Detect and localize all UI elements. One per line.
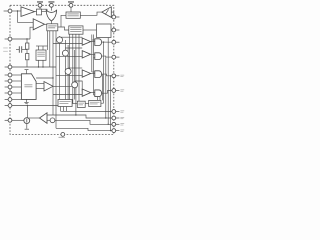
wire block top stub bbox=[26, 70, 28, 74]
wire bus line 4 bbox=[78, 34, 80, 101]
box text line bbox=[37, 51, 45, 54]
wire OR gate output bbox=[50, 21, 52, 24]
wire right vertical 2 bbox=[105, 57, 107, 118]
pin label top bbox=[68, 1, 74, 2]
pin lead left 2 bbox=[5, 38, 9, 40]
pin bottom bbox=[61, 133, 65, 137]
wire capacitor left bbox=[16, 49, 19, 51]
wire driver B to gate B bbox=[91, 53, 95, 55]
wire driver D input 1 bbox=[75, 81, 83, 91]
pin left 6 bbox=[8, 85, 12, 89]
OR gate pointing down bbox=[46, 10, 56, 21]
wire pin to divider bbox=[12, 38, 30, 40]
wire driver B input 2 bbox=[56, 55, 82, 57]
wire osc amp input bbox=[27, 117, 39, 119]
pin top 2 bbox=[50, 3, 54, 7]
pin lead right 5 bbox=[116, 75, 120, 77]
wire pin to current source bbox=[12, 119, 24, 121]
junction bbox=[42, 66, 43, 67]
junction bbox=[75, 114, 76, 115]
wire driver A input 2 bbox=[53, 43, 82, 45]
wire pin input 3 bbox=[12, 86, 21, 88]
pin lead left 4 bbox=[5, 74, 9, 76]
wire pin to amp1 input bbox=[12, 10, 21, 12]
wire box1 left branch bbox=[61, 15, 66, 27]
oscillator amp triangle pointing left A4 bbox=[40, 113, 48, 124]
box text line bbox=[90, 101, 100, 104]
box U9 bottom-right of row bbox=[89, 100, 101, 106]
pin label bbox=[120, 74, 124, 77]
wire driver C input 2 bbox=[56, 74, 82, 76]
block text line bbox=[24, 83, 32, 86]
wire block output 1 bbox=[36, 77, 53, 79]
box text line bbox=[37, 53, 45, 56]
wire box1 to regulator bbox=[80, 12, 102, 15]
pin right 6 bbox=[112, 89, 116, 93]
wire block top tick bbox=[25, 69, 29, 71]
wire gate D to pin bbox=[102, 91, 112, 94]
wire pin CT across bbox=[12, 66, 56, 68]
junction bbox=[103, 41, 104, 42]
pin label bbox=[120, 130, 123, 133]
wire osc box bottom stub 2 bbox=[42, 60, 44, 67]
pin left 10 bbox=[8, 118, 12, 122]
wire box C up stub 3 bbox=[102, 74, 104, 100]
box U3 undervoltage lockout bbox=[69, 26, 83, 34]
pin label bbox=[120, 122, 124, 125]
box text line bbox=[70, 26, 81, 29]
junction bbox=[110, 130, 111, 131]
pin lead right 1 bbox=[116, 16, 120, 18]
wire vertical bbox=[49, 31, 51, 67]
wire tap gate A bbox=[92, 39, 95, 41]
wire to osc bead bbox=[47, 119, 50, 121]
current source I1 bbox=[24, 118, 30, 124]
pin label bbox=[120, 90, 123, 93]
pin left 3 bbox=[8, 65, 12, 69]
pin label top bbox=[48, 1, 54, 2]
wire amp2 output bbox=[45, 23, 48, 25]
wire driver A to gate A bbox=[91, 41, 95, 43]
wire divider top bbox=[26, 39, 28, 43]
pin label bbox=[120, 116, 124, 119]
AND gate D bbox=[95, 90, 102, 97]
wire down to osc box bbox=[47, 24, 49, 50]
junction bbox=[74, 86, 75, 87]
box U5 oscillator control bbox=[36, 50, 46, 60]
ground tick bbox=[25, 128, 29, 130]
pin right 4 bbox=[112, 55, 116, 59]
wire amp3 input 1 bbox=[36, 83, 44, 85]
wire pin input 2 bbox=[12, 80, 21, 82]
hysteresis box after A1 bbox=[37, 9, 42, 15]
wire osc box top rail bbox=[36, 45, 48, 47]
wire gate bus 1 bbox=[91, 35, 93, 73]
driver triangle A bbox=[82, 38, 90, 45]
wire box A to box B bbox=[72, 103, 77, 105]
box text line bbox=[67, 13, 78, 16]
ground bar 1 bbox=[24, 101, 28, 103]
AND gate A bbox=[95, 39, 102, 46]
wire driver A input 1 bbox=[60, 36, 83, 38]
wire osc box top stub 1 bbox=[38, 46, 40, 50]
pin right 1 bbox=[112, 15, 116, 19]
box U1 thermal shutdown bbox=[66, 12, 80, 18]
wire right vertical 4 bbox=[110, 76, 112, 131]
wire bus line 2 bbox=[72, 34, 74, 103]
pin right 5 bbox=[112, 74, 116, 78]
input logic block U6 (clipped corner) bbox=[21, 74, 36, 100]
wire amp1 output bbox=[35, 11, 37, 13]
pin label bbox=[120, 75, 123, 78]
driver triangle B bbox=[82, 51, 90, 58]
pin right 7 bbox=[112, 110, 116, 114]
pin lead left 5 bbox=[5, 80, 9, 82]
pin label bbox=[120, 129, 124, 132]
driver triangle D bbox=[82, 89, 90, 96]
wire tap gate D bbox=[94, 94, 95, 96]
pin lead left 8 bbox=[5, 99, 9, 101]
pin right 2 bbox=[112, 28, 116, 32]
wire vertical through bead 1 bbox=[59, 36, 61, 100]
wire to sense pin 4 bbox=[56, 128, 112, 130]
junction bbox=[47, 24, 48, 25]
pin right 10 bbox=[112, 129, 116, 133]
pin lead right 3 bbox=[116, 41, 120, 43]
pin lead right 4 bbox=[116, 56, 120, 58]
pin label bbox=[120, 111, 123, 114]
pin top 1 bbox=[38, 3, 42, 7]
junction bbox=[17, 10, 18, 11]
pin left 5 bbox=[8, 79, 12, 83]
wire osc box top stub 2 bbox=[42, 46, 44, 50]
IC boundary dashed border bbox=[10, 5, 114, 134]
pin label bbox=[120, 89, 124, 92]
wire divider mid bbox=[26, 49, 28, 53]
float label bbox=[3, 50, 8, 53]
wire amp3 input 2 bbox=[36, 88, 44, 90]
wire vertical through bead 2 bbox=[64, 40, 66, 100]
pin lead right 7 bbox=[116, 111, 120, 113]
level-shift bead 1 bbox=[57, 37, 63, 43]
junction bbox=[27, 105, 28, 106]
wire pin input 4 bbox=[12, 92, 21, 94]
wire osc to sense pin 2 bbox=[47, 115, 112, 118]
box text line bbox=[70, 28, 81, 31]
wire regulator to pin bbox=[111, 12, 114, 15]
pin right 3 bbox=[112, 40, 116, 44]
box text line bbox=[90, 103, 98, 106]
pin left 1 bbox=[8, 9, 12, 13]
pin lead left 1 bbox=[4, 10, 9, 12]
pin label bbox=[120, 110, 124, 113]
pin left 7 bbox=[8, 91, 12, 95]
wire vertical through bead 3 bbox=[67, 45, 69, 100]
wire feedback to amp2 +input bbox=[18, 11, 34, 22]
wire divider bottom bbox=[26, 60, 28, 67]
regulator triangle pointing left U2 bbox=[102, 7, 112, 18]
pin lead left 6 bbox=[5, 86, 9, 88]
wire pin input 5 bbox=[12, 99, 21, 101]
wire to current source bbox=[26, 106, 28, 118]
wire tap gate B bbox=[94, 57, 95, 59]
pin left 4 bbox=[8, 73, 12, 77]
pin lead right 8 bbox=[116, 117, 120, 119]
wire box B to box C bbox=[85, 103, 89, 105]
wire box C right bbox=[101, 102, 104, 104]
wire driver C to gate C bbox=[91, 73, 95, 75]
level-shift bead 3 bbox=[65, 68, 71, 74]
pin left 2 bbox=[8, 37, 12, 41]
wire box A stub 3 bbox=[66, 107, 68, 112]
op-amp A1 top-left comparator bbox=[21, 7, 35, 17]
wire to sense pin 1 bbox=[61, 110, 112, 112]
block text line bbox=[24, 85, 32, 88]
wire gate A to pin bbox=[102, 41, 112, 43]
junction bbox=[105, 117, 106, 118]
box text line bbox=[67, 14, 78, 17]
wire right vertical 3 bbox=[107, 30, 109, 124]
level-shift bead 2 bbox=[62, 50, 68, 56]
wire pin input 1 bbox=[12, 74, 21, 76]
junction bbox=[26, 38, 27, 39]
wire gate bus 2 bbox=[93, 35, 95, 96]
wire tap gate C bbox=[92, 71, 95, 73]
resistor R2 bbox=[26, 54, 29, 60]
pin lead right 2 bbox=[116, 29, 120, 31]
wire amp3 output bbox=[53, 85, 75, 87]
wire vertical through bead 4 bbox=[74, 50, 76, 92]
wire osc box bottom stub 1 bbox=[38, 60, 40, 67]
pin top 3 bbox=[69, 3, 73, 7]
pin lead left 7 bbox=[5, 92, 9, 94]
pin label bbox=[120, 124, 123, 127]
wire top pin to box1 bbox=[70, 7, 72, 12]
op-amp A2 error amplifier bbox=[33, 19, 44, 30]
wire driver D to gate D bbox=[91, 92, 95, 94]
wire bus line 3 bbox=[75, 34, 77, 115]
AND gate B bbox=[95, 53, 102, 60]
level-shift bead 4 bbox=[72, 82, 78, 88]
junction bbox=[52, 77, 53, 78]
junction bbox=[38, 66, 39, 67]
junction bbox=[108, 124, 109, 125]
box text line bbox=[78, 104, 83, 107]
pin lead left 9 bbox=[5, 105, 9, 107]
pin lead right 6 bbox=[116, 90, 120, 92]
pin lead right 9 bbox=[116, 123, 120, 125]
pin lead left 3 bbox=[5, 66, 9, 68]
wire driver D input 2 bbox=[53, 94, 82, 96]
wire bottom pin across bbox=[12, 105, 58, 107]
box text line bbox=[70, 30, 81, 33]
pin lead right 10 bbox=[116, 130, 120, 132]
capacitor C1 bbox=[19, 46, 21, 52]
wire box C up stub 2 bbox=[99, 93, 101, 100]
driver triangle C bbox=[82, 70, 90, 77]
box text line bbox=[48, 26, 55, 29]
wire bead 4 lower bbox=[74, 92, 76, 100]
wire driver C input 1 bbox=[68, 67, 82, 69]
box U8 bottom-middle of row bbox=[77, 101, 85, 107]
wire box C up stub 1 bbox=[97, 97, 99, 101]
ground bar 2 bbox=[25, 103, 27, 105]
wire long vertical bus a bbox=[52, 31, 54, 115]
wire box2 to charge pump box bbox=[83, 29, 97, 31]
pin label bbox=[120, 117, 123, 120]
wire bus line 1 bbox=[69, 34, 71, 99]
box text line bbox=[37, 55, 45, 58]
op-amp A3 small comparator bbox=[44, 82, 53, 92]
pin left 8 bbox=[8, 98, 12, 102]
wire long vertical bus b bbox=[55, 31, 57, 129]
resistor R1 bbox=[26, 43, 29, 49]
box text line bbox=[59, 102, 68, 105]
pin right 8 bbox=[112, 116, 116, 120]
wire right vertical 1 bbox=[103, 42, 105, 103]
oscillator bead bbox=[50, 118, 55, 123]
wire current source to ground bbox=[26, 123, 28, 128]
pin right 9 bbox=[112, 122, 116, 126]
wire top pin to node bbox=[40, 7, 47, 11]
pin left 9 bbox=[8, 104, 12, 108]
wire driver B input 1 bbox=[65, 47, 82, 49]
pin lead left 10 bbox=[5, 119, 9, 121]
box text line bbox=[48, 25, 56, 28]
wire bead to sense pin 3 bbox=[55, 120, 112, 124]
pin label bottom bbox=[59, 136, 66, 139]
box text line bbox=[59, 100, 70, 103]
box text line bbox=[78, 102, 84, 105]
pin label top bbox=[37, 1, 43, 2]
wire gate B to pin bbox=[102, 56, 112, 57]
wire box A stub 2 bbox=[63, 107, 65, 112]
wire box to box2 bbox=[58, 27, 69, 30]
box U7 bottom-left of row bbox=[58, 100, 72, 107]
junction bbox=[108, 29, 109, 30]
wire charge pump to pin bbox=[111, 29, 114, 31]
AND gate C bbox=[95, 71, 102, 78]
box U4 charge pump top-right bbox=[97, 24, 112, 38]
junction bbox=[110, 75, 111, 76]
wire gate C to pin bbox=[102, 74, 112, 76]
wire block ground stub bbox=[26, 99, 28, 102]
wire to OR gate bbox=[42, 11, 48, 13]
wire box A stub 1 bbox=[60, 107, 62, 112]
monostable box below OR gate bbox=[47, 24, 58, 31]
float label bbox=[3, 47, 8, 50]
wire top pin to OR gate input bbox=[50, 7, 52, 10]
wire capacitor right bbox=[22, 49, 27, 51]
wire amp2 -input bbox=[30, 27, 33, 39]
